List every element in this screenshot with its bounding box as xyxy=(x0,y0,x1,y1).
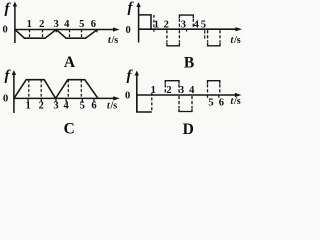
svg-text:4: 4 xyxy=(63,101,69,112)
svg-text:3: 3 xyxy=(179,85,184,96)
svg-text:B: B xyxy=(184,55,194,72)
svg-text:C: C xyxy=(64,121,75,138)
svg-text:0: 0 xyxy=(126,25,131,36)
svg-text:5: 5 xyxy=(80,101,85,112)
svg-text:0: 0 xyxy=(125,90,130,101)
y-axis arrowhead (D) xyxy=(135,71,139,76)
svg-text:1: 1 xyxy=(27,19,32,30)
svg-text:1: 1 xyxy=(154,19,159,30)
svg-text:/s: /s xyxy=(110,101,118,112)
dashed edge t=1 (D) xyxy=(151,93,153,112)
tick t=3 (A) xyxy=(55,30,57,33)
svg-text:4: 4 xyxy=(194,19,200,30)
tick below axis t=1 (B) xyxy=(153,30,155,32)
svg-text:D: D xyxy=(183,121,194,137)
svg-text:6: 6 xyxy=(91,101,96,112)
tick t=5 (D) xyxy=(207,95,209,98)
svg-text:2: 2 xyxy=(39,101,44,112)
svg-text:2: 2 xyxy=(39,19,44,30)
svg-text:5: 5 xyxy=(201,19,206,30)
svg-text:4: 4 xyxy=(189,85,195,96)
svg-text:5: 5 xyxy=(208,98,213,109)
tick numbers (B) xyxy=(154,19,206,30)
dashed drop line t=2 (A) xyxy=(42,30,44,39)
waveform trapezoid wave (A) xyxy=(15,30,98,39)
solid negative pulse 0-1 (D) xyxy=(137,95,152,112)
dashed line t=1 (B) xyxy=(153,15,155,29)
x-axis arrowhead (A) xyxy=(113,27,120,31)
dashed positive pulse 3-4 (B) xyxy=(179,15,193,28)
waveform trapezoid wave (C) xyxy=(14,80,98,99)
y-axis arrowhead (B) xyxy=(136,2,140,7)
tick numbers (C) xyxy=(25,101,96,112)
dashed riser t=4 (C) xyxy=(67,80,69,99)
tick t=6 (A) xyxy=(96,30,98,33)
stray dashed tick x=204.7 (B) xyxy=(204,30,206,40)
dashed positive pulse 5-6 (D) xyxy=(208,81,220,95)
x-axis arrowhead (C) xyxy=(113,96,120,100)
x-axis (B) xyxy=(139,28,237,30)
x-axis (C) xyxy=(14,97,115,99)
svg-text:1: 1 xyxy=(25,101,30,112)
dashed drop line t=4 (A) xyxy=(69,30,71,39)
dashed drop line t=1 (A) xyxy=(29,30,31,39)
svg-text:3: 3 xyxy=(53,19,58,30)
x-axis (A) xyxy=(15,29,115,31)
dashed negative pulse 2-3 (B) xyxy=(167,30,180,46)
svg-text:0: 0 xyxy=(3,94,8,105)
svg-text:0: 0 xyxy=(3,25,8,36)
svg-text:6: 6 xyxy=(219,98,224,109)
svg-text:2: 2 xyxy=(164,19,169,30)
y-axis (A) xyxy=(14,4,16,43)
dashed riser t=1 (C) xyxy=(28,80,30,99)
svg-text:3: 3 xyxy=(53,101,58,112)
svg-text:/s: /s xyxy=(233,35,241,46)
dashed drop line t=5 (A) xyxy=(81,30,83,39)
tick numbers (A) xyxy=(27,19,96,30)
solid pulse 0-1 (B) xyxy=(139,15,151,29)
x-axis arrowhead (D) xyxy=(235,93,242,97)
svg-text:4: 4 xyxy=(64,19,70,30)
svg-text:3: 3 xyxy=(181,19,186,30)
y-axis arrowhead (A) xyxy=(13,2,17,7)
y-axis (D) xyxy=(136,73,138,113)
y-axis arrowhead (C) xyxy=(12,70,16,75)
dashed positive pulse 2-3 (D) xyxy=(165,81,179,95)
svg-text:2: 2 xyxy=(166,85,171,96)
dashed riser t=5 (C) xyxy=(80,80,82,99)
dashed negative pulse 5-6 (B) xyxy=(208,30,220,46)
dashed riser t=2 (C) xyxy=(40,80,42,99)
svg-text:/s: /s xyxy=(233,96,241,107)
tick below axis x=186.6 (B) xyxy=(186,30,188,32)
x-axis (D) xyxy=(137,94,237,96)
tick t=6 (D) xyxy=(218,95,220,98)
x-axis arrowhead (B) xyxy=(235,27,242,31)
dashed negative pulse 3-4 (D) xyxy=(179,96,192,112)
tick numbers above axis (D) xyxy=(151,85,196,96)
y-axis (B) xyxy=(138,5,140,43)
svg-text:/s: /s xyxy=(111,35,119,46)
svg-text:1: 1 xyxy=(151,85,156,96)
axis ticks (C) xyxy=(28,98,94,102)
svg-text:6: 6 xyxy=(91,19,96,30)
tick numbers below axis (D) xyxy=(208,98,224,109)
svg-text:5: 5 xyxy=(79,19,84,30)
y-axis (C) xyxy=(13,73,15,114)
svg-text:A: A xyxy=(64,54,76,71)
